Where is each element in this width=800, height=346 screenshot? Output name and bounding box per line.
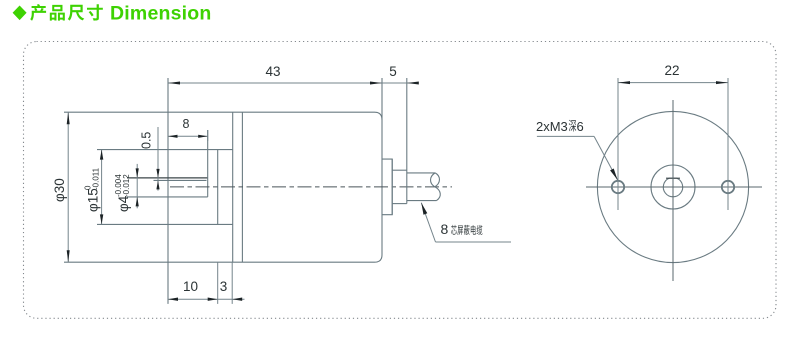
centerline of shaft xyxy=(170,186,452,188)
crosshair centerlines xyxy=(586,100,762,281)
label 2xM3深6 with leader xyxy=(536,119,618,180)
dimension φ15 with tolerance xyxy=(84,150,104,225)
svg-text:φ30: φ30 xyxy=(52,178,67,202)
svg-text:5: 5 xyxy=(389,64,397,79)
svg-text:22: 22 xyxy=(664,63,679,78)
side view motor body outline xyxy=(64,112,382,262)
dimension 0.5 (flat depth) xyxy=(140,127,160,191)
dimension 22 xyxy=(618,63,728,84)
rear cap step 2 xyxy=(392,159,407,215)
dimension φ4 with tolerance xyxy=(114,164,139,212)
svg-text:Dimension: Dimension xyxy=(110,2,211,24)
dimension 43 xyxy=(168,64,418,85)
svg-text:0.5: 0.5 xyxy=(140,132,154,149)
svg-text:10: 10 xyxy=(183,279,198,294)
extension line at motor rear edge xyxy=(381,78,383,120)
motor front face / extension line xyxy=(167,78,169,304)
gearbox joint double lines xyxy=(233,112,243,262)
mounting hole right xyxy=(722,181,734,193)
cable label 8芯屏蔽电缆 with leader xyxy=(421,203,511,242)
internal bearing boss lines xyxy=(97,150,233,225)
title text 产品尺寸 xyxy=(30,4,103,21)
front view body circle φ30 xyxy=(597,111,748,262)
mounting hole left xyxy=(612,181,624,193)
dimension φ30 xyxy=(52,112,70,262)
mounting hole right centerline xyxy=(727,78,729,210)
rear cap step 1 xyxy=(382,159,392,215)
dimension 10 xyxy=(168,262,245,304)
cable break symbol xyxy=(431,173,441,201)
front hub circle xyxy=(651,165,695,209)
svg-text:φ15: φ15 xyxy=(86,188,101,212)
dimension 3 xyxy=(220,279,242,301)
svg-text:2xM3: 2xM3 xyxy=(536,119,568,134)
svg-text:-0.011: -0.011 xyxy=(92,167,101,190)
title diamond bullet xyxy=(13,6,27,21)
output shaft φ4 xyxy=(127,130,208,197)
shaft circle with flat xyxy=(663,178,682,197)
svg-text:8: 8 xyxy=(441,221,449,237)
dimension 5 (rear cap) xyxy=(389,64,419,85)
svg-text:8: 8 xyxy=(183,117,190,131)
svg-text:6: 6 xyxy=(577,119,584,134)
dimension 8 (shaft length) xyxy=(168,117,208,141)
svg-text:43: 43 xyxy=(265,64,280,79)
cable exit vertical / extension line for 5 xyxy=(406,78,408,204)
shaft flat line (0.5 deep) xyxy=(154,179,207,181)
cable xyxy=(407,173,437,201)
mounting hole left centerline xyxy=(617,78,619,210)
svg-text:3: 3 xyxy=(220,279,228,294)
dotted panel border xyxy=(24,42,777,319)
svg-text:-0.012: -0.012 xyxy=(122,174,131,197)
